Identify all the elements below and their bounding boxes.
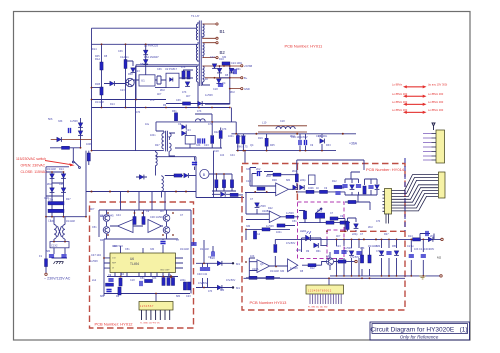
svg-text:1n/50V: 1n/50V <box>238 135 246 138</box>
svg-text:220p: 220p <box>180 279 186 282</box>
svg-text:47K: 47K <box>197 110 202 113</box>
svg-text:ZD2: ZD2 <box>290 135 295 138</box>
svg-text:T1 HY: T1 HY <box>191 14 200 18</box>
svg-text:680: 680 <box>46 250 51 253</box>
svg-text:1n/50V: 1n/50V <box>70 120 78 123</box>
svg-text:PCB Number: HY014: PCB Number: HY014 <box>366 167 405 172</box>
svg-text:PCB Number HY013: PCB Number HY013 <box>250 300 288 305</box>
svg-text:470: 470 <box>136 111 141 114</box>
svg-text:R61: R61 <box>172 110 177 113</box>
svg-text:10u: 10u <box>145 123 150 126</box>
svg-text:33K: 33K <box>58 120 63 123</box>
svg-text:R61: R61 <box>316 250 321 253</box>
svg-text:U10A: U10A <box>252 267 259 271</box>
svg-text:1 2 3 4 5 6 7: 1 2 3 4 5 6 7 <box>140 305 154 308</box>
svg-text:PR1: PR1 <box>317 209 323 213</box>
svg-text:2K2: 2K2 <box>256 168 261 171</box>
svg-text:U2 PC817: U2 PC817 <box>165 67 178 71</box>
svg-text:TL GND 12V FG VS: TL GND 12V FG VS <box>140 323 160 325</box>
svg-text:C44: C44 <box>326 255 331 258</box>
svg-text:1K: 1K <box>316 187 319 190</box>
svg-text:1N4148: 1N4148 <box>180 248 189 251</box>
svg-text:2K2: 2K2 <box>344 250 349 253</box>
svg-text:C23: C23 <box>336 245 341 248</box>
svg-text:4K7: 4K7 <box>157 93 162 96</box>
svg-text:M2: M2 <box>437 256 441 260</box>
svg-text:R45: R45 <box>95 55 100 58</box>
svg-text:D14: D14 <box>92 48 97 51</box>
svg-text:47K: 47K <box>360 247 365 250</box>
svg-text:1CK: 1CK <box>112 258 117 260</box>
svg-text:R58: R58 <box>392 245 397 248</box>
svg-text:R61: R61 <box>236 68 241 71</box>
svg-text:330: 330 <box>280 270 285 273</box>
svg-text:1K: 1K <box>205 78 208 81</box>
svg-text:ZD2: ZD2 <box>47 183 52 186</box>
svg-text:680: 680 <box>176 295 181 298</box>
svg-text:2u2: 2u2 <box>256 233 261 236</box>
svg-text:470: 470 <box>208 123 213 126</box>
svg-text:1n/50V: 1n/50V <box>266 225 274 228</box>
svg-text:C23: C23 <box>186 129 191 132</box>
svg-text:D22: D22 <box>268 207 273 210</box>
svg-text:U6: U6 <box>130 257 134 261</box>
svg-text:100n: 100n <box>228 135 234 138</box>
svg-text:33K: 33K <box>246 168 251 171</box>
svg-text:33K: 33K <box>196 144 201 147</box>
svg-text:100K: 100K <box>308 187 314 190</box>
svg-text:R19: R19 <box>258 137 263 140</box>
svg-text:1n/50V: 1n/50V <box>286 212 294 215</box>
svg-text:47K: 47K <box>222 128 227 131</box>
svg-text:47u/50V: 47u/50V <box>198 282 208 285</box>
svg-text:D14: D14 <box>110 103 115 106</box>
svg-text:FL GIN 15s 15s WD: FL GIN 15s 15s WD <box>308 307 328 309</box>
svg-text:C51: C51 <box>140 277 145 280</box>
svg-text:M1: M1 <box>236 286 240 290</box>
svg-text:330: 330 <box>50 220 55 223</box>
svg-text:1n/50V: 1n/50V <box>258 205 266 208</box>
svg-text:2u2: 2u2 <box>92 279 97 282</box>
svg-text:Lo 88Vin 300: Lo 88Vin 300 <box>428 92 444 96</box>
svg-text:330: 330 <box>246 225 251 228</box>
svg-text:C18: C18 <box>213 88 218 91</box>
svg-text:C36: C36 <box>112 245 117 248</box>
svg-text:R27: R27 <box>66 198 71 201</box>
svg-text:1N4148: 1N4148 <box>95 101 104 104</box>
svg-text:(to any 15V 300): (to any 15V 300) <box>428 83 447 87</box>
svg-text:OPEN: 230VAC: OPEN: 230VAC <box>21 164 46 168</box>
svg-text:5K6: 5K6 <box>48 118 53 121</box>
svg-text:ZD2: ZD2 <box>160 89 165 92</box>
svg-text:CLOSE: 115VAC: CLOSE: 115VAC <box>21 170 48 174</box>
svg-text:220p: 220p <box>352 233 358 236</box>
svg-text:R30: R30 <box>272 178 277 182</box>
svg-text:470: 470 <box>376 220 381 223</box>
svg-text:C30 1n/50V: C30 1n/50V <box>150 215 164 219</box>
svg-text:B+: B+ <box>244 76 248 80</box>
svg-text:GND CMP: GND CMP <box>160 270 170 272</box>
svg-text:Lo 88Vin 300: Lo 88Vin 300 <box>392 108 408 112</box>
svg-text:C51: C51 <box>125 248 130 251</box>
svg-text:C23: C23 <box>120 89 125 92</box>
svg-text:C23: C23 <box>186 295 191 298</box>
svg-text:4K7: 4K7 <box>90 208 95 211</box>
svg-text:C23: C23 <box>135 70 140 73</box>
svg-text:ZD2: ZD2 <box>266 175 271 178</box>
svg-text:220p: 220p <box>300 179 306 182</box>
svg-text:10K: 10K <box>250 255 255 258</box>
svg-text:~ 230V/115V AC: ~ 230V/115V AC <box>44 277 71 281</box>
svg-text:100n: 100n <box>150 134 156 137</box>
svg-text:PCB Number: HY012: PCB Number: HY012 <box>95 322 134 327</box>
svg-text:D22: D22 <box>214 131 219 134</box>
svg-text:10K: 10K <box>414 248 419 251</box>
svg-text:C5A: C5A <box>48 198 53 202</box>
svg-text:+36A: +36A <box>349 142 358 146</box>
svg-text:680: 680 <box>286 179 291 182</box>
svg-text:R1B: R1B <box>95 82 100 86</box>
svg-text:B1: B1 <box>220 29 226 34</box>
svg-text:100n: 100n <box>276 231 282 234</box>
svg-text:C36: C36 <box>157 68 162 71</box>
svg-text:R45: R45 <box>100 239 105 242</box>
svg-text:L10: L10 <box>262 121 267 125</box>
svg-text:R27: R27 <box>384 233 389 236</box>
svg-text:47u/50V: 47u/50V <box>286 242 296 245</box>
svg-text:Lo 88Vin 300: Lo 88Vin 300 <box>428 100 444 104</box>
svg-text:C40 C41: C40 C41 <box>197 272 208 276</box>
svg-text:680: 680 <box>376 245 381 248</box>
svg-text:C23: C23 <box>204 144 209 147</box>
svg-text:1n/50V: 1n/50V <box>290 267 298 270</box>
svg-text:4K7: 4K7 <box>336 235 341 238</box>
svg-text:R58: R58 <box>128 73 133 76</box>
svg-text:D5A 1N4937: D5A 1N4937 <box>144 55 159 59</box>
svg-text:M1: M1 <box>236 262 240 266</box>
svg-text:33K: 33K <box>340 187 345 190</box>
svg-text:C36: C36 <box>118 50 123 53</box>
svg-text:1N4148: 1N4148 <box>200 248 209 251</box>
svg-text:C36: C36 <box>176 99 181 102</box>
svg-text:104: 104 <box>120 273 125 276</box>
svg-text:B2: B2 <box>220 50 226 55</box>
svg-text:C51: C51 <box>92 226 97 229</box>
svg-text:680: 680 <box>100 295 105 298</box>
svg-text:R27: R27 <box>155 144 160 147</box>
svg-text:Lo 88Vin: Lo 88Vin <box>392 83 403 87</box>
svg-text:680: 680 <box>220 289 225 292</box>
svg-text:C18: C18 <box>44 197 49 200</box>
svg-text:1N4148: 1N4148 <box>66 220 75 223</box>
svg-text:C44: C44 <box>116 214 121 217</box>
svg-text:ZD2: ZD2 <box>230 91 235 94</box>
svg-text:115/230VAC switch: 115/230VAC switch <box>16 157 46 161</box>
svg-text:1n/50V: 1n/50V <box>205 94 213 97</box>
svg-text:1n/50V: 1n/50V <box>90 260 98 263</box>
svg-text:R12: R12 <box>332 180 337 183</box>
svg-text:47K: 47K <box>150 99 155 102</box>
svg-text:47K: 47K <box>181 66 186 69</box>
svg-text:C51: C51 <box>292 220 297 223</box>
svg-text:U1: U1 <box>141 79 145 83</box>
svg-text:1N4148: 1N4148 <box>47 168 56 171</box>
svg-text:C1A 1n: C1A 1n <box>120 55 129 59</box>
svg-text:4K7: 4K7 <box>160 210 165 213</box>
svg-text:R45: R45 <box>270 144 275 147</box>
svg-text:Lo 88Vin 300: Lo 88Vin 300 <box>392 100 408 104</box>
svg-text:47u/50V: 47u/50V <box>226 279 236 282</box>
svg-text:330: 330 <box>222 56 227 59</box>
svg-text:C23: C23 <box>210 56 215 59</box>
svg-text:TL494: TL494 <box>130 262 139 266</box>
svg-text:47K: 47K <box>182 91 187 94</box>
svg-text:4K7: 4K7 <box>186 95 191 98</box>
svg-text:Circuit Diagram for HY3020E: Circuit Diagram for HY3020E (1) <box>370 326 467 333</box>
svg-text:C10: C10 <box>246 179 251 183</box>
svg-text:220p: 220p <box>296 249 302 252</box>
svg-text:C36: C36 <box>59 183 64 186</box>
svg-text:C18: C18 <box>214 150 219 153</box>
svg-text:C1 3n3/400V: C1 3n3/400V <box>419 247 434 251</box>
svg-text:LED1: LED1 <box>300 229 307 233</box>
svg-text:1n/50V: 1n/50V <box>344 247 352 250</box>
svg-text:C1X2: C1X2 <box>51 243 58 247</box>
svg-text:2K2: 2K2 <box>430 235 435 238</box>
svg-text:Lo 88Vin 300: Lo 88Vin 300 <box>392 92 408 96</box>
svg-text:Only for Reference: Only for Reference <box>400 335 439 340</box>
svg-text:C18: C18 <box>130 279 135 282</box>
svg-text:330: 330 <box>150 248 155 251</box>
svg-text:C47 104: C47 104 <box>91 253 101 257</box>
svg-text:C18: C18 <box>280 120 285 123</box>
svg-text:1N4148: 1N4148 <box>270 270 279 273</box>
svg-text:R33: R33 <box>326 144 331 147</box>
svg-text:PCB Number: HY011: PCB Number: HY011 <box>285 44 323 49</box>
svg-text:R12: R12 <box>310 267 315 270</box>
svg-text:ZD2: ZD2 <box>368 226 373 229</box>
svg-text:104: 104 <box>220 154 225 157</box>
svg-text:R66 0.75: R66 0.75 <box>237 145 248 149</box>
svg-text:Lo 88Vin 300: Lo 88Vin 300 <box>428 108 444 112</box>
svg-text:D14: D14 <box>408 235 413 238</box>
svg-text:470: 470 <box>208 290 213 293</box>
svg-text:D14: D14 <box>59 168 64 171</box>
svg-text:100K: 100K <box>86 143 92 146</box>
svg-text:C24 100n: C24 100n <box>231 61 243 65</box>
svg-text:47u/50V: 47u/50V <box>350 256 360 259</box>
svg-text:C44: C44 <box>230 154 235 157</box>
svg-text:+5VSB: +5VSB <box>244 64 252 68</box>
svg-text:1 2 3 4 5 6 7 8 9 0 1 2: 1 2 3 4 5 6 7 8 9 0 1 2 <box>308 290 332 293</box>
svg-text:ZD2: ZD2 <box>292 170 297 173</box>
svg-text:GND: GND <box>244 87 250 91</box>
svg-text:33K: 33K <box>152 277 157 280</box>
